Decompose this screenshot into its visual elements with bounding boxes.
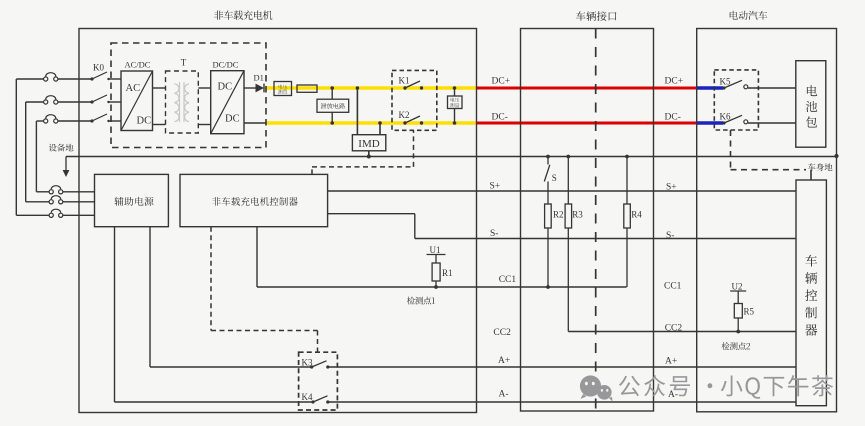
- svg-text:CC1: CC1: [499, 275, 517, 285]
- svg-text:A-: A-: [668, 390, 678, 400]
- svg-text:K3: K3: [302, 357, 313, 367]
- svg-text:CC2: CC2: [493, 328, 511, 338]
- svg-text:K0: K0: [93, 63, 104, 73]
- svg-text:R3: R3: [572, 210, 583, 220]
- svg-text:AC: AC: [126, 83, 141, 94]
- svg-text:S+: S+: [490, 182, 501, 192]
- svg-text:S: S: [552, 173, 557, 183]
- svg-text:DC-: DC-: [492, 113, 508, 123]
- svg-text:S-: S-: [490, 229, 498, 239]
- svg-text:D1: D1: [254, 73, 264, 83]
- svg-text:R2: R2: [553, 210, 564, 220]
- svg-text:K2: K2: [399, 110, 410, 120]
- svg-text:AC/DC: AC/DC: [125, 60, 151, 70]
- svg-text:DC: DC: [137, 116, 152, 127]
- svg-text:R5: R5: [744, 307, 755, 317]
- svg-text:CC1: CC1: [664, 282, 682, 292]
- svg-text:IMD: IMD: [358, 138, 379, 150]
- svg-text:DC: DC: [218, 82, 233, 93]
- svg-text:K6: K6: [720, 112, 731, 122]
- svg-text:K5: K5: [720, 77, 731, 87]
- svg-text:CC2: CC2: [665, 324, 683, 334]
- svg-text:S-: S-: [666, 231, 674, 241]
- svg-text:DC+: DC+: [492, 77, 511, 87]
- svg-text:A+: A+: [498, 356, 510, 366]
- svg-text:DC: DC: [225, 114, 240, 125]
- svg-text:R1: R1: [442, 268, 453, 278]
- svg-text:K1: K1: [399, 76, 410, 86]
- svg-text:DC-: DC-: [665, 113, 681, 123]
- svg-text:DC+: DC+: [665, 77, 684, 87]
- svg-text:K4: K4: [302, 392, 313, 402]
- svg-text:A+: A+: [665, 357, 677, 367]
- svg-text:T: T: [181, 58, 187, 68]
- svg-text:U2: U2: [732, 282, 743, 292]
- svg-text:A-: A-: [499, 390, 509, 400]
- svg-text:DC/DC: DC/DC: [213, 60, 239, 70]
- svg-text:U1: U1: [430, 245, 441, 255]
- svg-text:R4: R4: [631, 210, 642, 220]
- svg-text:S+: S+: [666, 183, 677, 193]
